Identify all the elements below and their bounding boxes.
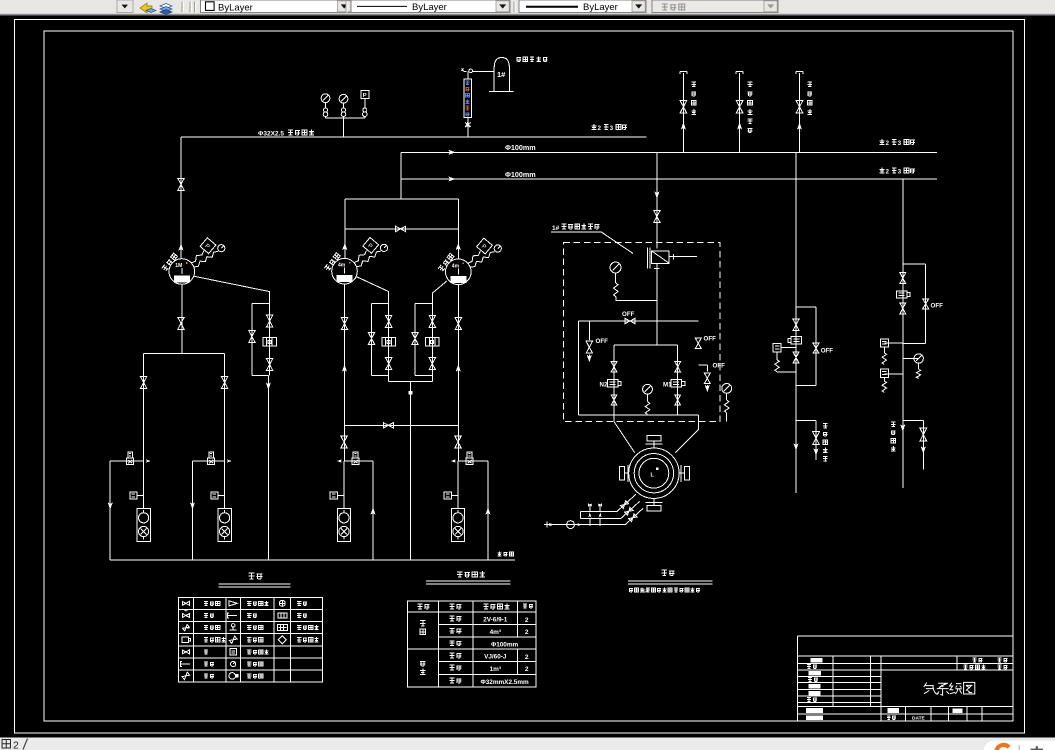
motor valve M2 — [608, 380, 619, 387]
wire: B2 B3 merge header — [389, 381, 433, 560]
wire: B3 discharge diagonal — [415, 281, 447, 304]
legend table grid — [178, 597, 322, 682]
layout tab text — [2, 740, 10, 748]
valve: M2 lower — [611, 395, 617, 405]
instrument: pressure gauge 1 — [321, 94, 330, 103]
blower B2: rotated name label — [324, 253, 340, 271]
svg-text:ByLayer: ByLayer — [412, 2, 447, 13]
toolbar: separator — [181, 2, 183, 13]
wire: M-valve pair tee — [614, 342, 678, 415]
instrument: P diamond of B1 — [191, 251, 204, 263]
label: tank vent label — [517, 57, 548, 62]
valve: station S2 isolation — [221, 377, 227, 389]
valve: left run lower — [793, 352, 799, 363]
station S4: pressure regulator — [466, 458, 473, 465]
valve: B3 upper — [429, 315, 435, 327]
tee: right run branch out — [903, 421, 924, 470]
valve: B1 discharge gate — [178, 317, 184, 329]
title block grid — [798, 636, 1013, 721]
blower B2: casing — [332, 258, 358, 284]
svg-text:2: 2 — [525, 617, 529, 624]
svg-text:OFF: OFF — [704, 336, 717, 343]
label: to 2m3 boiler (header) — [592, 124, 627, 129]
status bar — [0, 738, 1055, 750]
valve: piston supply isolation — [654, 211, 660, 223]
svg-text:ByLayer: ByLayer — [218, 2, 253, 13]
svg-text:OFF: OFF — [622, 311, 635, 318]
wire: cooling line 3 (supply) — [544, 508, 643, 524]
vent: left OFF blowdown — [588, 321, 590, 361]
toolbar: plot style combobox (disabled) — [652, 0, 778, 13]
valve: B3 bypass — [412, 333, 418, 345]
riser pipe R3 with gate valve — [796, 72, 803, 153]
wire: phi100 line 2 — [401, 178, 937, 180]
svg-text:Φ100mm: Φ100mm — [505, 143, 536, 152]
label: to boiler 1 — [880, 139, 915, 144]
wire: blower B1 suction — [180, 137, 182, 259]
valves on cooling lines — [588, 504, 592, 512]
label: riser R1 service (vertical) — [691, 82, 696, 114]
instrument: gauge of B3 — [471, 252, 495, 268]
wire: station crossover — [344, 424, 458, 426]
pump: cooling water — [567, 521, 575, 529]
riser pipe R1 with gate valve — [680, 72, 687, 153]
flow meter: B3 — [426, 338, 440, 347]
vent: right OFF upper — [695, 338, 701, 348]
motor valve: right run — [896, 291, 907, 298]
wire: drop to left distribution run — [795, 152, 797, 493]
svg-text:ByLayer: ByLayer — [583, 2, 618, 13]
svg-text:M1: M1 — [663, 381, 672, 388]
svg-text:P: P — [363, 93, 367, 99]
station S1: E-box — [130, 492, 137, 499]
wire: drops to compressor — [614, 415, 698, 453]
wire: piston unit main drop — [654, 263, 659, 341]
valve: B1 bypass left — [249, 331, 255, 343]
wire: B1 discharge diagonal — [194, 276, 269, 303]
tee: left run branch out — [796, 421, 816, 460]
svg-text:Φ32X2.5: Φ32X2.5 — [258, 131, 284, 138]
legend table contents — [182, 601, 189, 605]
valve: B2 bypass — [368, 333, 374, 345]
wire: arrestor drop with arrow — [467, 118, 469, 137]
compressor: bottom flange — [647, 506, 661, 511]
label: rail destination — [498, 552, 514, 557]
node: junction dot — [409, 391, 412, 394]
wire: phi100 line 1 — [401, 151, 937, 153]
wire: filter outlet — [669, 254, 697, 259]
svg-text:N2: N2 — [600, 381, 608, 388]
branch: B3 meter run — [415, 304, 432, 382]
toolbar: layers icon — [160, 4, 172, 15]
valve: B2 lower — [386, 358, 392, 370]
bypass loop right run — [903, 264, 926, 344]
riser pipe R2 with gate valve — [736, 72, 743, 153]
label: riser R3 service (vertical) — [808, 82, 813, 114]
valve: S4 isolation — [455, 436, 461, 448]
station S4: sight glass — [457, 461, 459, 509]
svg-text:OFF: OFF — [931, 302, 944, 309]
station S3: E-box — [330, 492, 337, 499]
svg-text:4m³: 4m³ — [490, 629, 501, 636]
valve: M1 upper — [675, 362, 681, 372]
valve: B2 upper — [386, 315, 392, 327]
svg-text:OFF: OFF — [713, 362, 726, 369]
wire: main header pipe phi32 — [181, 136, 647, 138]
instrument: outside gauge — [722, 384, 732, 394]
wire: suction box to blowers B2 B3 — [345, 199, 459, 259]
toolbar: color combobox ByLayer — [201, 0, 352, 13]
instrument: gauge of B2 — [357, 251, 381, 267]
svg-text:OFF: OFF — [596, 338, 609, 345]
svg-text:1#: 1# — [552, 225, 560, 232]
station S1: branch pipe — [110, 461, 143, 560]
svg-text:1m³: 1m³ — [490, 666, 501, 673]
station S2: E-box — [211, 492, 218, 499]
motor valve: left run — [791, 337, 802, 344]
station S4: E-box — [444, 492, 451, 499]
svg-text:4m: 4m — [452, 263, 460, 269]
instrument: right damper 2 — [884, 373, 902, 375]
wire: distribution header in box — [578, 321, 698, 415]
wire: instrument manifold — [326, 118, 365, 137]
instrument: pressure gauge 2 — [339, 94, 348, 103]
valve: B1 line lower — [266, 359, 272, 371]
compressor: top flange — [647, 436, 661, 441]
blower B1: casing — [169, 259, 195, 285]
label: main equipment title — [457, 571, 485, 577]
label: legend title — [249, 573, 263, 579]
valve: B3 lower — [429, 358, 435, 370]
station S3: branch pipe — [344, 461, 373, 560]
branch: B1 bypass pair — [252, 304, 270, 560]
compressor: right flange — [685, 467, 690, 480]
equipment table texts — [418, 604, 430, 609]
flame arrestor column — [464, 79, 471, 118]
station S4: branch pipe — [458, 461, 488, 560]
station S3: pressure regulator — [352, 458, 359, 465]
valve: S3 isolation — [341, 436, 347, 448]
toolbar: lineweight combobox ByLayer — [519, 0, 646, 13]
wire: purge bottom rail — [110, 559, 515, 561]
title block: small labels — [807, 665, 817, 669]
equipment table grid — [408, 601, 536, 687]
toolbar: linetype combobox ByLayer — [351, 0, 510, 13]
svg-text:Φ100mm: Φ100mm — [491, 641, 519, 648]
wire: station header tee — [144, 353, 225, 461]
instrument stems and root valves — [325, 103, 327, 108]
svg-text:VJ/60-J: VJ/60-J — [484, 654, 507, 661]
station S3: sight glass — [343, 461, 345, 509]
station S2: sight glass — [224, 461, 226, 509]
instrument: left run damper gauge — [781, 347, 796, 349]
label: right branch destination (vertical) — [891, 422, 895, 451]
valve: B1 suction gate — [178, 178, 184, 190]
wire: cooling line 1 — [580, 494, 636, 511]
title block: redaction blocks — [811, 658, 823, 663]
valve: M1 lower — [675, 395, 681, 405]
title: drawing name (gas system diagram) — [924, 682, 975, 695]
blower B3: casing — [446, 259, 472, 285]
valve: left run upper — [793, 319, 799, 330]
valve: left bypass OFF — [813, 343, 819, 353]
svg-text:1#: 1# — [497, 70, 506, 79]
svg-text:1#: 1# — [643, 588, 649, 594]
valve: B1 line upper — [266, 315, 272, 327]
instrument: center gauge — [643, 384, 653, 394]
svg-text:1M: 1M — [175, 263, 182, 269]
wire: drop to piston unit — [656, 152, 658, 248]
valve: B2 discharge gate — [341, 318, 347, 330]
blower B1: rotated name label — [162, 253, 178, 271]
toolbar: separator — [345, 2, 347, 13]
branch: B2 meter run — [372, 304, 389, 382]
station S1: pressure regulator — [127, 458, 134, 465]
dashed enclosure: 1# piston gas unit — [563, 243, 720, 422]
instrument: P diamond of B3 — [468, 251, 481, 263]
valve: B3 discharge gate — [455, 318, 461, 330]
instrument: unit inlet gauge — [610, 262, 621, 273]
flow meter: B1 — [263, 338, 277, 347]
wire: cooling line 2 — [580, 501, 639, 518]
svg-text:2: 2 — [525, 666, 529, 673]
station S1: sight glass — [143, 461, 145, 509]
blower B3: rotated name label — [438, 253, 454, 271]
bypass loop left run — [796, 307, 816, 386]
toolbar: separator — [513, 2, 515, 13]
toolbar background — [0, 0, 1055, 16]
svg-text:Φ100mm: Φ100mm — [505, 170, 536, 179]
svg-text:4m: 4m — [338, 263, 346, 269]
wire: B1 down main — [181, 284, 183, 353]
valve: crossover bowtie — [383, 423, 393, 428]
svg-text:DATE: DATE — [912, 716, 926, 722]
label: note body — [629, 588, 700, 593]
label: to boiler 2 — [880, 168, 915, 173]
wire: B3 down main — [457, 284, 459, 461]
instrument: right run gauge — [903, 358, 919, 360]
compressor: 1# piston machine body — [629, 448, 679, 498]
toolbar: partial combo dropdown button — [117, 0, 133, 13]
valve: right run lower — [900, 303, 906, 314]
valve: crossover on suction box — [396, 226, 406, 231]
instrument: right damper 1 — [884, 342, 902, 344]
instrument: P diamond of B2 — [354, 250, 367, 262]
label: note title — [662, 570, 675, 575]
wire: arrestor to tank — [468, 72, 494, 79]
svg-text:2: 2 — [525, 654, 529, 661]
toolbar: make-layer-current icon — [140, 3, 156, 13]
instrument: gauge of B1 — [194, 251, 218, 267]
wire: drop to right distribution run — [902, 179, 904, 488]
compressor: left flange — [620, 467, 625, 480]
flow meter: B2 — [382, 338, 396, 347]
valve: M2 upper — [611, 362, 617, 372]
filter separator — [648, 248, 650, 269]
valve: station S1 isolation — [140, 377, 146, 389]
svg-text:2V-6/9-1: 2V-6/9-1 — [483, 617, 508, 624]
svg-text:2: 2 — [525, 629, 529, 636]
tank: storage drum 1# — [489, 58, 513, 92]
station S2: pressure regulator — [208, 458, 215, 465]
wire: B2 discharge diagonal — [357, 277, 389, 304]
bottom-right overlay widget — [983, 740, 1055, 750]
station S2: branch pipe — [193, 461, 225, 560]
label: left branch destination (vertical) — [823, 424, 827, 461]
svg-text:OFF: OFF — [821, 348, 834, 355]
wire: riser to phi100 lines junction — [400, 152, 402, 199]
wire: B2 down main — [344, 284, 346, 461]
motor valve M1 — [671, 380, 682, 387]
valve: header OFF bowtie — [625, 318, 635, 323]
valve: right bypass OFF — [923, 299, 929, 309]
label: riser R2 service (vertical) — [748, 82, 753, 133]
valve: right run upper — [900, 273, 906, 284]
svg-text:Φ32mmX2.5mm: Φ32mmX2.5mm — [480, 679, 529, 686]
instrument: P switch — [361, 90, 369, 98]
wire: box bottom rail — [578, 414, 698, 416]
svg-text:2: 2 — [13, 740, 19, 750]
vent: right OFF lower with arrow — [698, 365, 707, 391]
